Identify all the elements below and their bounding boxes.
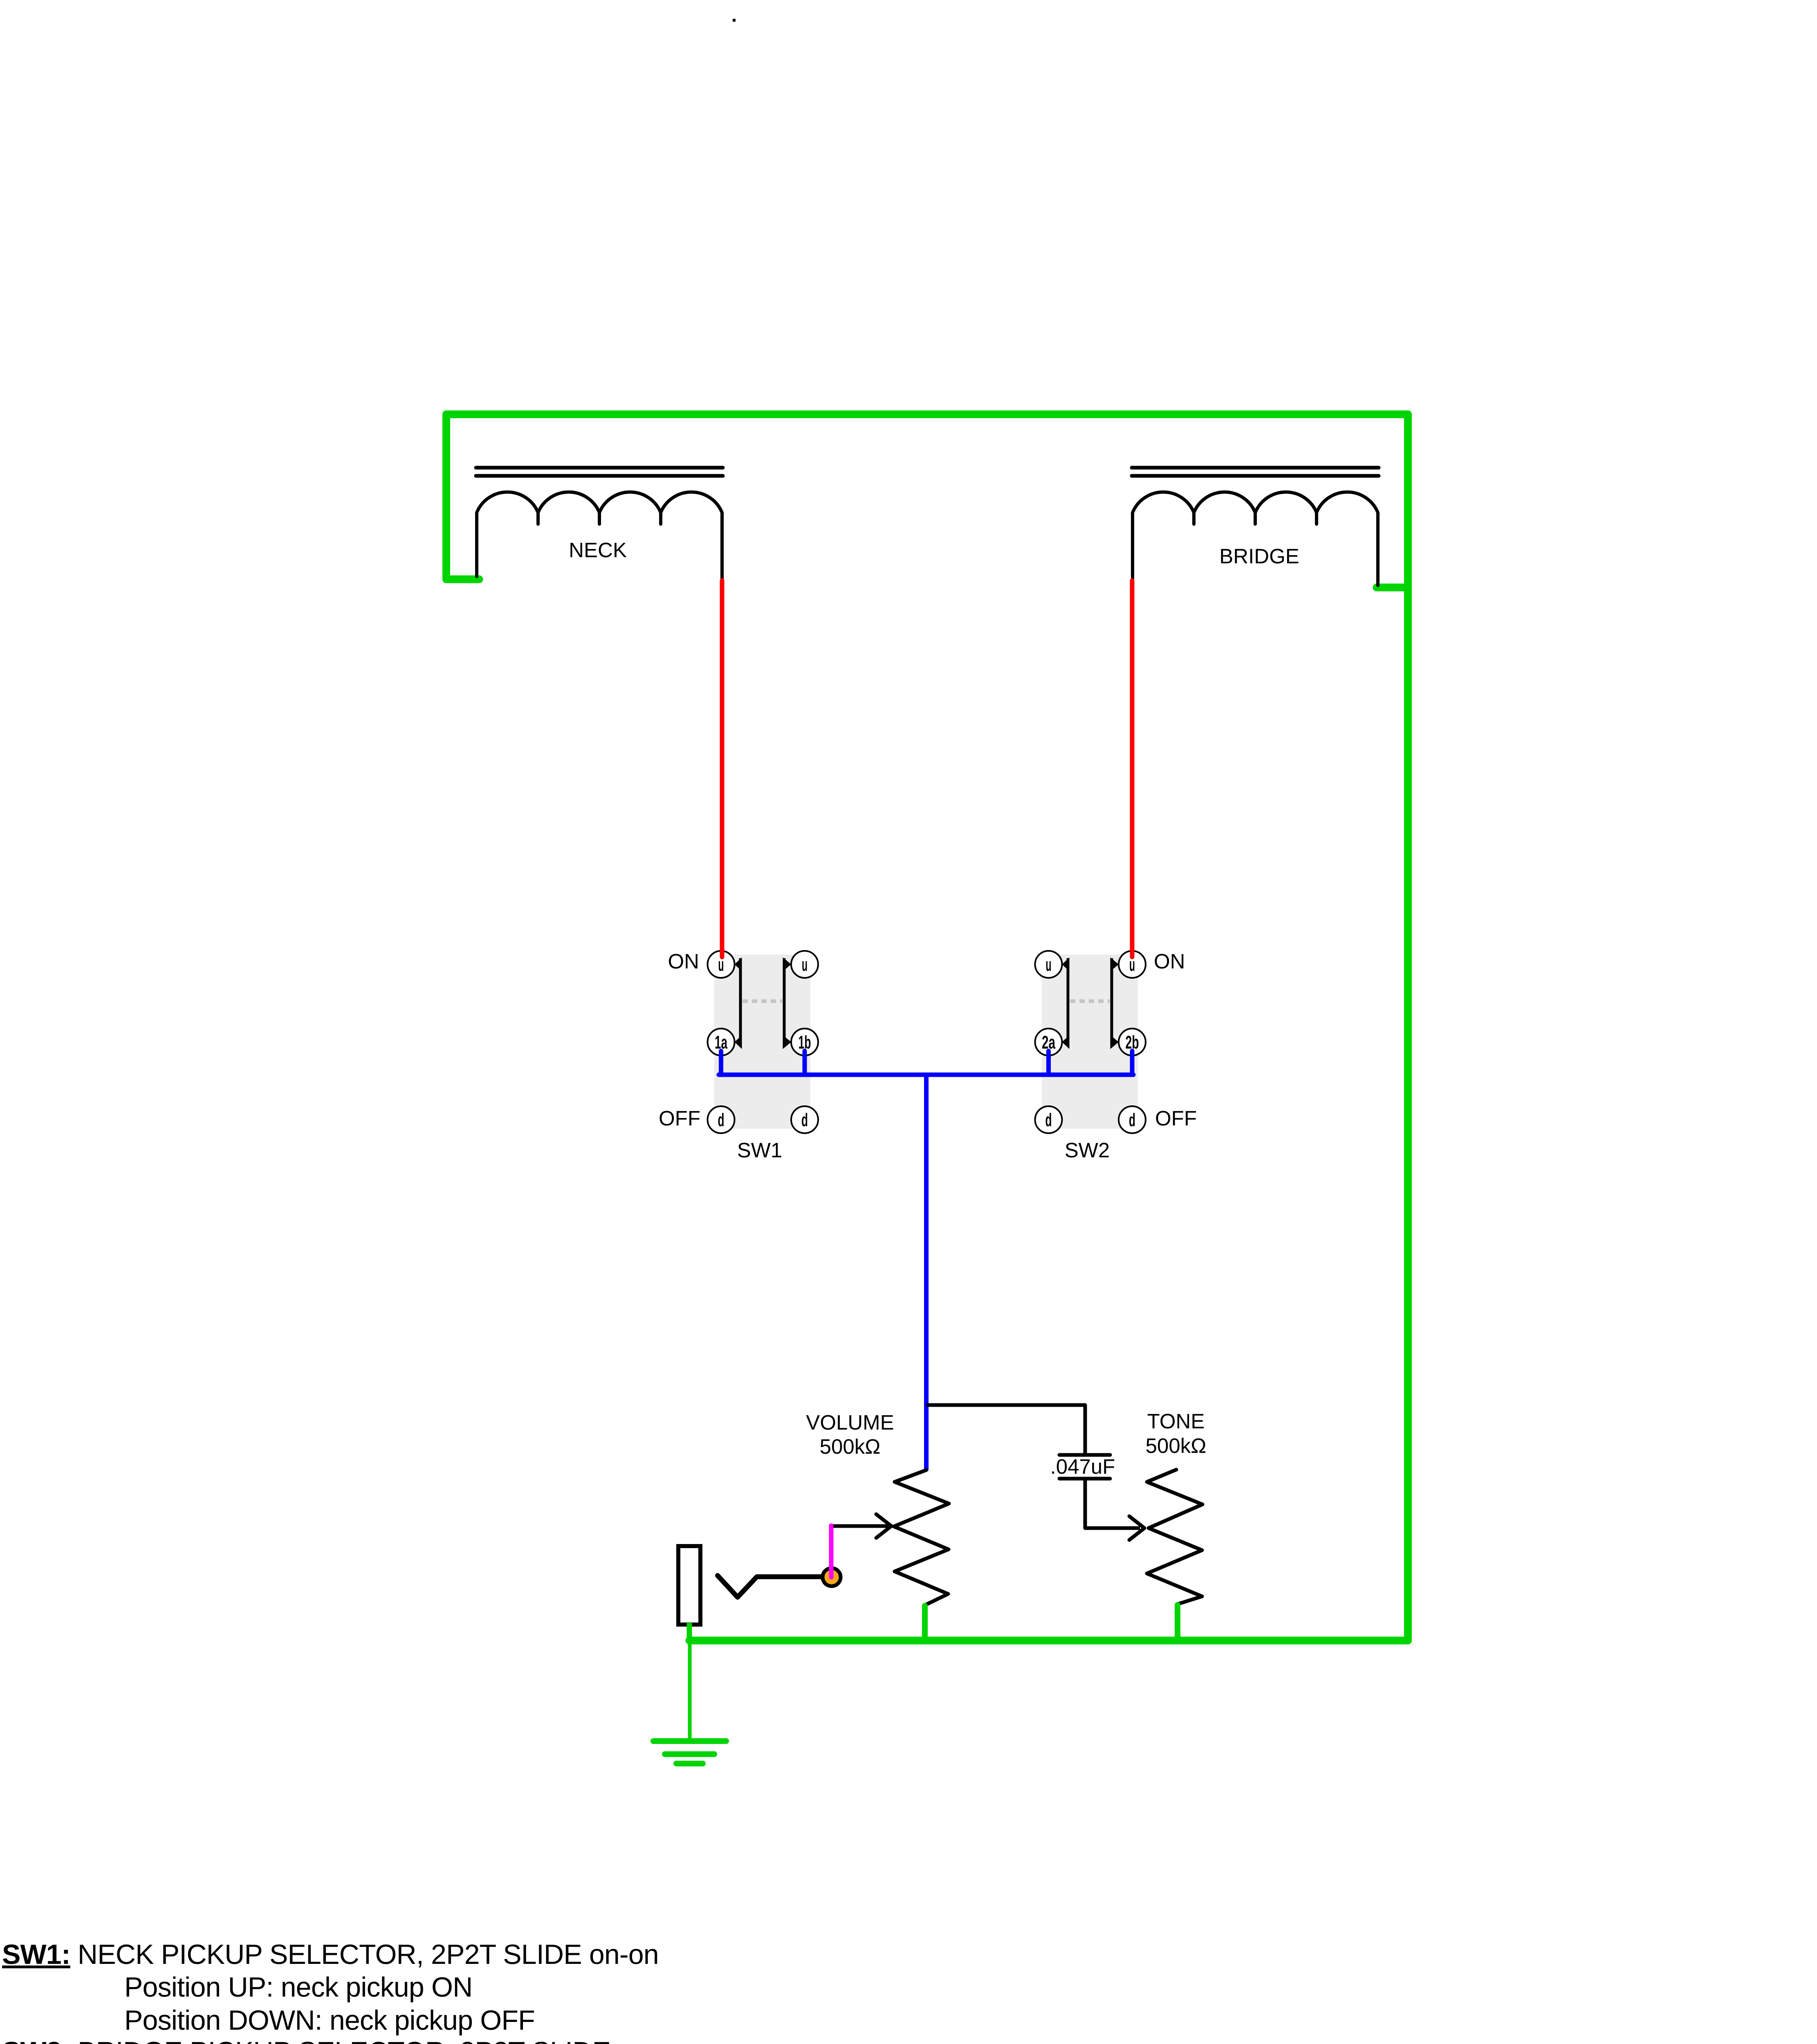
wire stub 1b [803,1051,807,1075]
svg-text:d: d [801,1109,808,1130]
svg-text:OFF: OFF [659,1107,700,1130]
capacitor .047uF plates [1059,1455,1110,1479]
wire bridge hot (red) [1130,580,1135,957]
arrow tone wiper [1129,1516,1144,1540]
svg-text:500kΩ: 500kΩ [820,1435,881,1458]
potentiometer TONE [1147,1470,1202,1604]
switch SW2 body [1042,955,1138,1129]
SW1 terminal labels [715,954,811,1130]
switch SW1 body [714,955,810,1129]
svg-text:TONE: TONE [1147,1410,1205,1433]
output jack sleeve [678,1546,700,1625]
wire cap to tone wiper [1085,1480,1140,1528]
stray dot [733,19,736,22]
wire blue to volume [924,1075,929,1470]
jack tip contact [718,1576,823,1597]
svg-text:BRIDGE: BRIDGE [1219,545,1299,568]
SW1 mechanical link (dashed) [743,1000,782,1003]
svg-text:OFF: OFF [1155,1107,1197,1130]
SW1 terminals [708,951,819,1133]
svg-text:d: d [1129,1109,1135,1130]
svg-text:d: d [718,1109,725,1130]
svg-text:SW2: BRIDGE PICKUP SELECTOR, 2: SW2: BRIDGE PICKUP SELECTOR, 2P2T SLIDE … [2,2036,687,2044]
SW2 pole bar right [1110,958,1113,1044]
wire stub 1a [719,1051,723,1075]
SW2 terminals [1035,951,1146,1133]
svg-text:500kΩ: 500kΩ [1146,1434,1207,1457]
pickup NECK coil [477,492,722,582]
wire volume wiper [831,1524,886,1528]
svg-text:Position UP: neck pickup ON: Position UP: neck pickup ON [124,1972,472,2003]
wire stub 2b [1130,1051,1135,1075]
wire tee to cap [926,1405,1086,1453]
jack tip terminal [823,1568,841,1586]
wire bridge-ground stub [1377,584,1408,592]
wire jack ground (green) [687,1623,692,1641]
SW2 terminal labels [1042,954,1139,1130]
wire blue bus [719,1073,1133,1077]
SW2 mechanical link (dashed) [1070,1000,1110,1003]
svg-text:u: u [1046,954,1052,975]
wire ground-loop green [446,415,1408,1641]
svg-text:VOLUME: VOLUME [806,1411,894,1434]
wire neck hot (red) [720,580,725,957]
SW2 contact arrows [1062,957,1119,1049]
pickup BRIDGE core [1132,468,1379,476]
svg-text:Position DOWN: neck pickup OFF: Position DOWN: neck pickup OFF [124,2005,535,2036]
arrow volume wiper [876,1514,891,1538]
svg-text:ON: ON [668,950,700,973]
wire volume ground stub [922,1606,928,1641]
svg-text:d: d [1045,1109,1052,1130]
svg-text:SW1: NECK PICKUP SELECTOR, 2P2: SW1: NECK PICKUP SELECTOR, 2P2T SLIDE on… [2,1939,659,1970]
potentiometer VOLUME [894,1470,949,1605]
SW2 pole bar left [1067,958,1070,1044]
svg-text:ON: ON [1154,950,1185,973]
pickup BRIDGE coil [1133,492,1378,585]
svg-text:u: u [802,954,808,975]
wire tone ground stub [1175,1605,1180,1641]
svg-text:.047uF: .047uF [1050,1455,1115,1478]
wire magenta to jack tip [829,1526,834,1577]
pickup NECK core [476,468,723,476]
svg-text:SW1: SW1 [737,1139,783,1162]
svg-text:SW2: SW2 [1065,1139,1110,1162]
wire stub 2a [1046,1051,1051,1075]
ground symbol [653,1741,726,1764]
svg-text:NECK: NECK [569,538,627,562]
SW1 pole bar left [739,958,742,1044]
SW1 pole bar right [783,958,786,1044]
SW1 contact arrows [735,957,792,1049]
